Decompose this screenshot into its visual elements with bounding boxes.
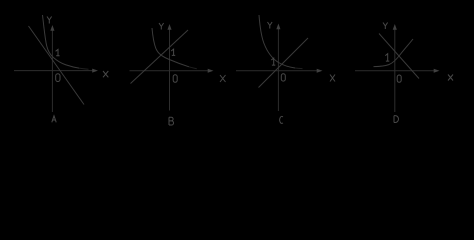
graph D: x-axis <box>355 70 435 72</box>
graph D: label 0 <box>397 75 401 82</box>
graph A: label X <box>103 71 108 77</box>
graph A: label Y <box>47 17 52 24</box>
graph A: y-axis <box>51 30 53 112</box>
graph A: x-axis <box>14 70 93 72</box>
graph C: y-axis arrowhead <box>276 24 280 30</box>
graph A: x-axis arrowhead <box>92 69 98 73</box>
graph D: label Y <box>383 23 388 30</box>
graph B: x-axis arrowhead <box>208 69 214 73</box>
graph B: x-axis <box>130 70 209 72</box>
graph C: label Y <box>268 22 273 29</box>
graph B: label X <box>220 75 226 82</box>
graph C: letter C <box>280 116 283 123</box>
graph C: x-axis arrowhead <box>317 69 323 73</box>
graph A: exponential curve (decreasing) <box>43 15 80 68</box>
graph D: label 1 <box>385 54 389 61</box>
graph A: straight line (negative slope) <box>29 26 85 105</box>
graph B: straight line (positive slope) <box>131 30 189 84</box>
graph B: exponential curve (decreasing) <box>152 28 189 67</box>
graph C: label 1 <box>271 58 275 65</box>
graph D: y-axis arrowhead <box>393 24 397 30</box>
graph B: letter B <box>169 117 174 125</box>
graph C: label 0 <box>281 74 285 81</box>
graph C: x-axis <box>236 70 318 72</box>
graph D: exponential curve (increasing) <box>374 39 414 67</box>
graph A: label 0 <box>56 74 60 82</box>
graph A: label 1 <box>56 49 60 55</box>
graph C: exponential curve (decreasing) <box>259 15 295 68</box>
graph D: straight line (negative slope) <box>379 34 419 79</box>
graph A: y-axis arrowhead <box>50 25 54 31</box>
graph B: label Y <box>159 23 164 30</box>
graph C: y-axis <box>277 29 279 112</box>
graph B: y-axis arrowhead <box>167 24 171 30</box>
graph D: letter D <box>394 116 398 123</box>
graph D: label X <box>448 75 453 81</box>
graph B: label 1 <box>171 49 175 55</box>
graph C: straight line (positive slope through origin) <box>259 38 309 88</box>
graph D: y-axis <box>394 29 396 112</box>
graph D: x-axis arrowhead <box>434 69 440 73</box>
graph B: y-axis <box>169 29 171 111</box>
graph B: label 0 <box>173 75 177 83</box>
graph A: letter A <box>52 116 56 123</box>
graph C: label X <box>330 75 335 82</box>
